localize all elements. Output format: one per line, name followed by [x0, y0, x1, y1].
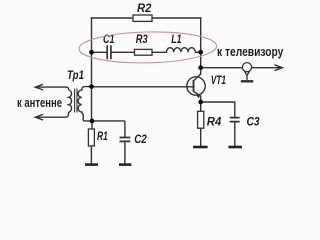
svg-text:R4: R4: [207, 115, 222, 129]
emitter: [194, 92, 201, 102]
svg-text:к телевизору: к телевизору: [217, 44, 284, 59]
svg-text:к антенне: к антенне: [17, 95, 62, 110]
wire C1 to R3: [112, 51, 135, 53]
primary winding: [69, 90, 72, 112]
wire C1 row left: [92, 51, 107, 53]
node C (TV tap): [198, 65, 203, 70]
wire left vertical lower: [91, 87, 93, 121]
wire top bus: [92, 17, 201, 19]
resistor R1: [88, 121, 94, 164]
highlight ellipse: [79, 31, 217, 65]
ground R1: [85, 163, 98, 166]
base bar: [193, 80, 195, 92]
node F (emitter): [198, 100, 203, 105]
node D (base): [89, 84, 94, 89]
svg-text:C2: C2: [134, 132, 147, 146]
svg-text:C3: C3: [247, 115, 260, 129]
wire node to C2: [83, 120, 125, 122]
capacitor C1: [107, 45, 111, 59]
capacitor C3: [201, 102, 240, 146]
transistor VT1: [187, 74, 205, 102]
node E (R1 top): [90, 119, 95, 124]
svg-text:VT1: VT1: [211, 73, 226, 87]
wire L1 to node: [195, 51, 200, 53]
arrow to antenna bottom: [36, 112, 69, 117]
connector socket: [241, 63, 254, 82]
ground C2: [119, 163, 131, 166]
svg-text:R2: R2: [137, 1, 152, 15]
wire right vertical: [200, 18, 202, 74]
svg-text:R1: R1: [97, 129, 108, 143]
core: [75, 89, 77, 113]
capacitor C2: [120, 121, 131, 164]
resistor R2: [133, 15, 152, 21]
node B (L1 output): [198, 50, 203, 55]
collector: [194, 74, 201, 81]
wire left vertical: [91, 18, 93, 87]
svg-text:L1: L1: [171, 32, 182, 46]
wire base: [92, 86, 194, 88]
emitter arrow: [196, 95, 200, 98]
node A (C1 input): [89, 50, 94, 55]
ground R4: [193, 146, 208, 149]
resistor R4: [198, 102, 204, 146]
secondary winding: [78, 87, 92, 121]
ground C3: [228, 146, 242, 149]
arrow to antenna top: [36, 87, 69, 90]
resistor R3: [135, 49, 153, 55]
svg-text:Тр1: Тр1: [67, 68, 84, 82]
svg-text:R3: R3: [136, 32, 148, 46]
wire R3 to L1: [152, 51, 167, 53]
wire to TV: [201, 67, 282, 69]
transformer Tp1: [35, 84, 125, 121]
inductor L1: [167, 48, 196, 53]
arrow to TV: [275, 65, 283, 71]
